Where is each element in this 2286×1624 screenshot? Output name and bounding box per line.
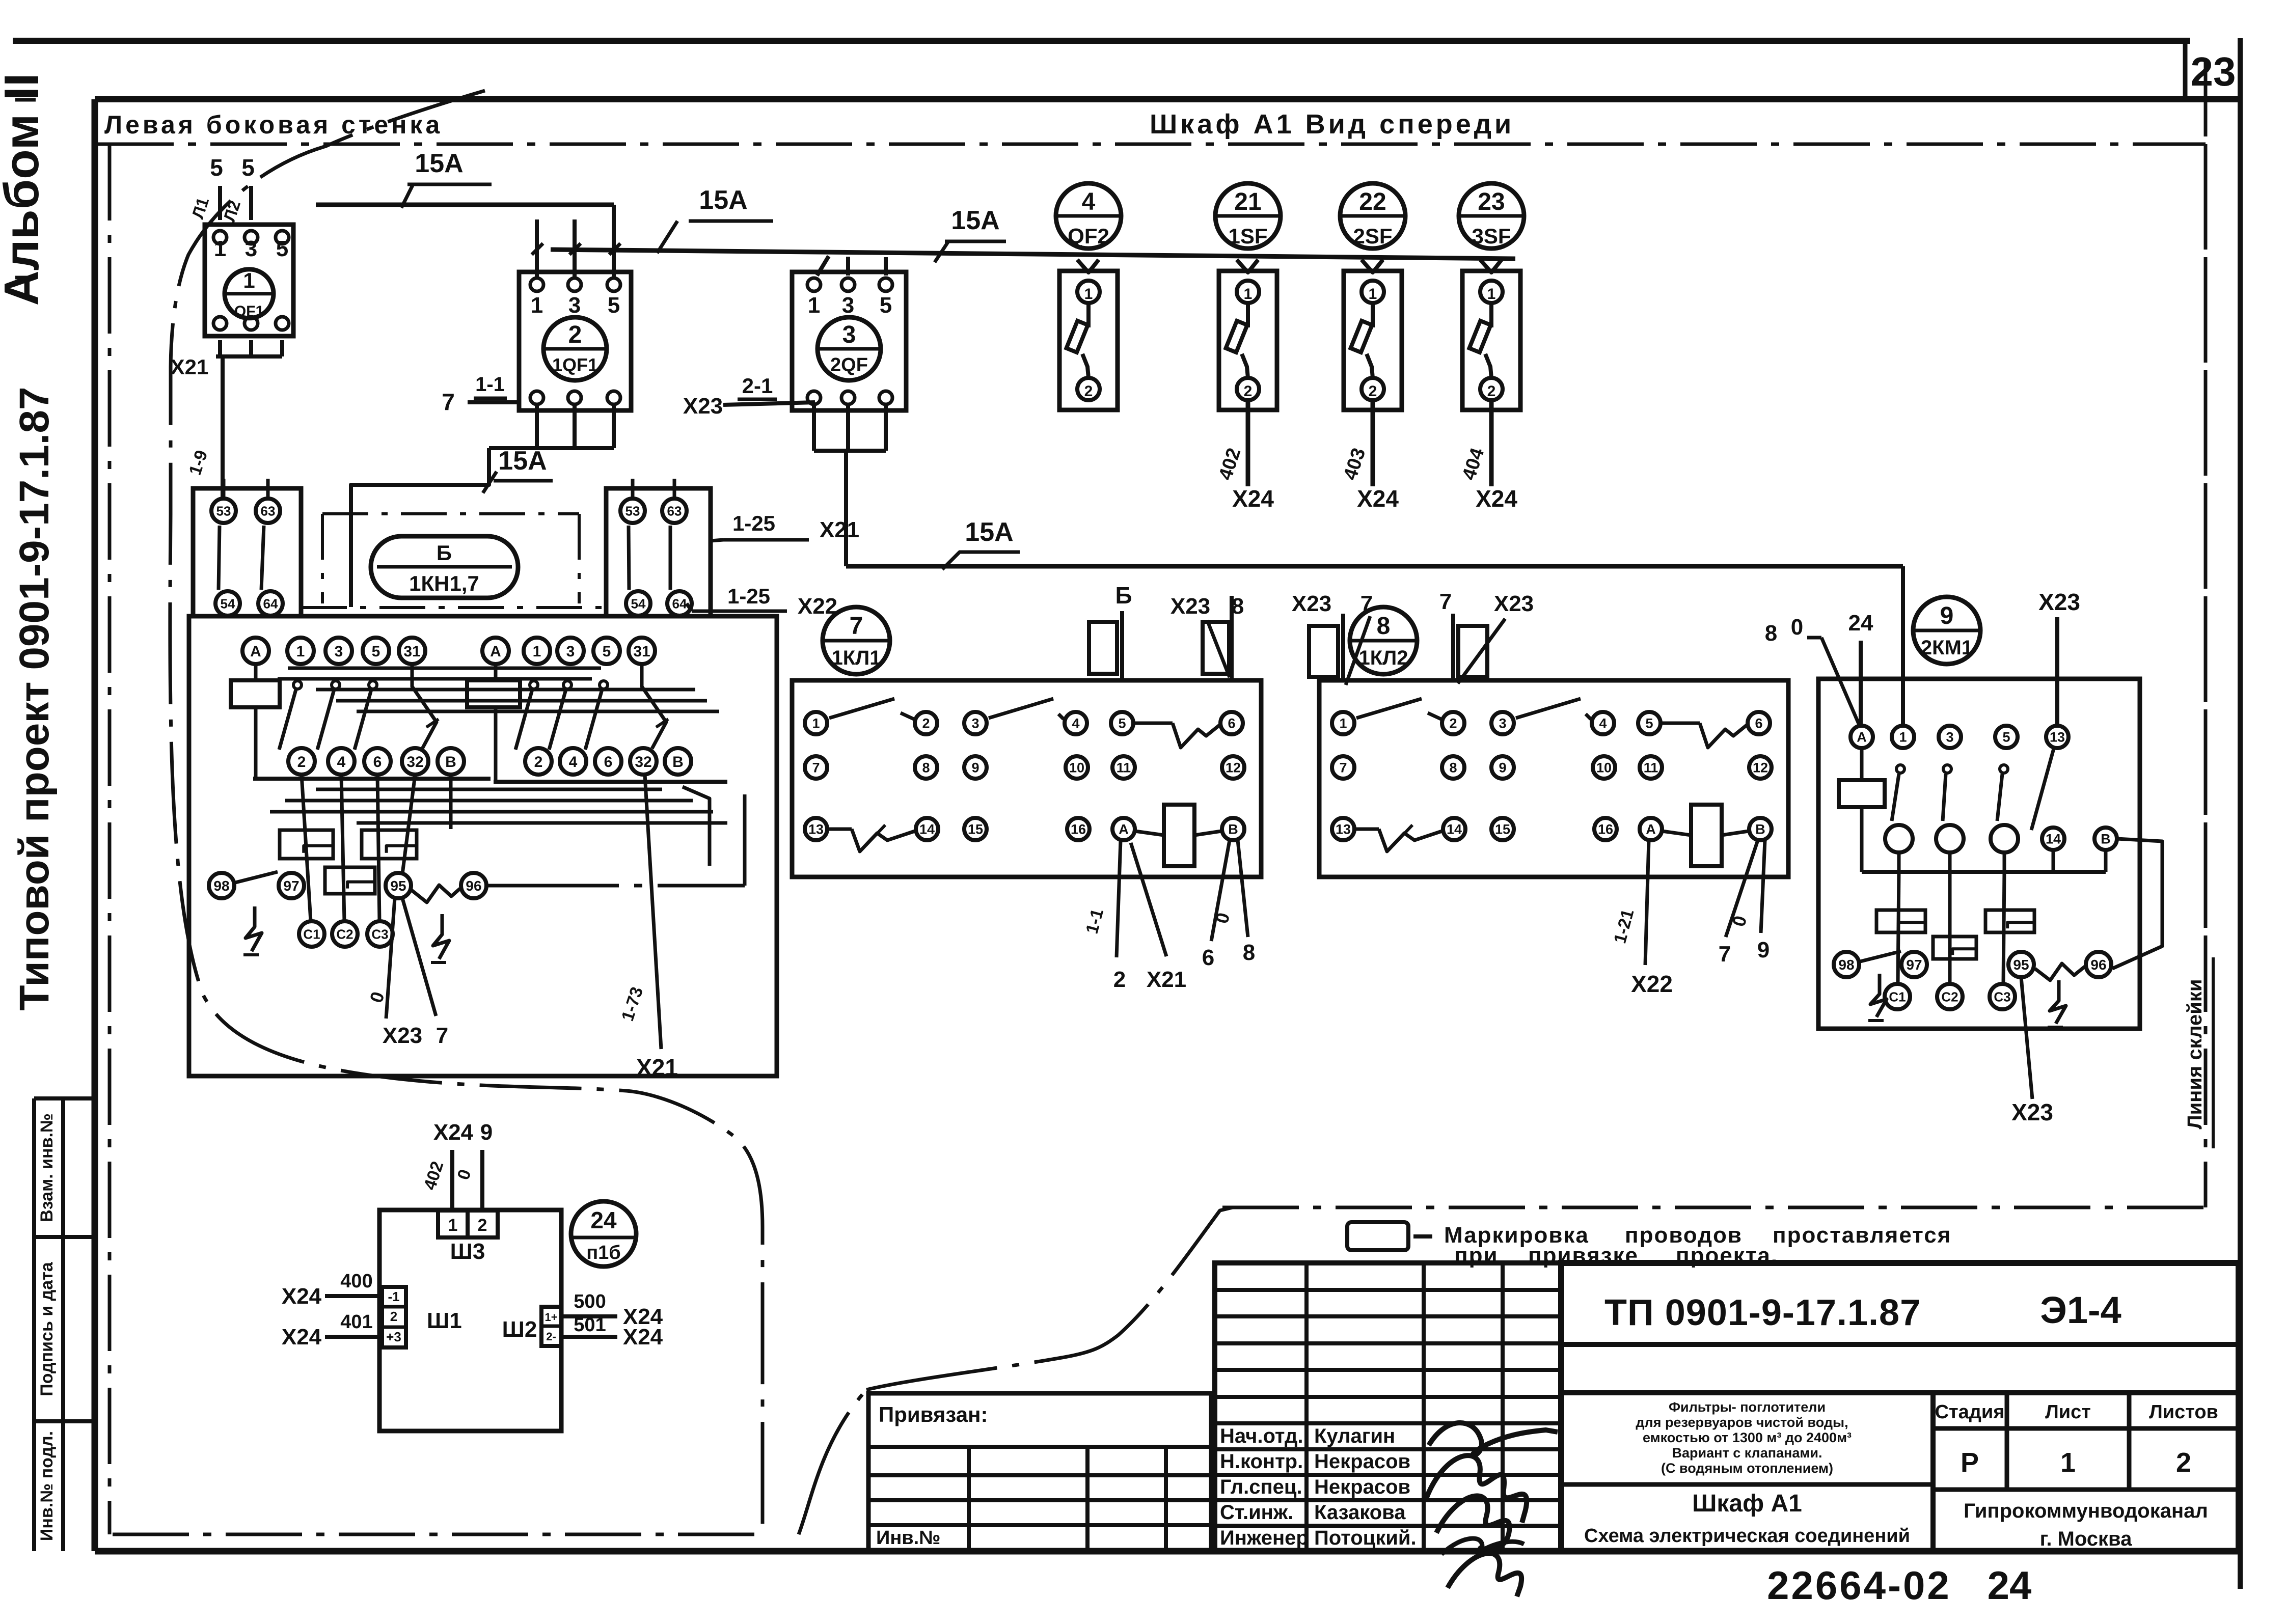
svg-text:15A: 15A xyxy=(699,185,747,215)
svg-text:X23: X23 xyxy=(1171,594,1210,619)
svg-text:Нач.отд.: Нач.отд. xyxy=(1220,1425,1303,1447)
svg-text:8: 8 xyxy=(1377,613,1391,640)
svg-text:5: 5 xyxy=(608,293,620,318)
svg-text:2: 2 xyxy=(1244,383,1253,400)
svg-text:A: A xyxy=(1857,730,1867,745)
svg-text:7: 7 xyxy=(1360,591,1373,616)
svg-text:15A: 15A xyxy=(965,517,1013,547)
svg-text:2: 2 xyxy=(478,1216,487,1235)
svg-text:31: 31 xyxy=(633,643,650,660)
svg-text:24: 24 xyxy=(1848,611,1873,636)
svg-text:14: 14 xyxy=(919,822,935,837)
svg-text:23: 23 xyxy=(2191,49,2236,94)
svg-text:2: 2 xyxy=(390,1309,397,1324)
svg-text:32: 32 xyxy=(406,754,423,770)
svg-text:11: 11 xyxy=(1644,760,1658,776)
svg-text:Ш3: Ш3 xyxy=(450,1239,485,1264)
svg-text:2-: 2- xyxy=(546,1330,556,1343)
svg-text:54: 54 xyxy=(631,596,646,611)
svg-text:7: 7 xyxy=(442,389,455,415)
svg-text:емкостью от 1300 м³ до 2400м³: емкостью от 1300 м³ до 2400м³ xyxy=(1643,1430,1852,1445)
svg-text:Ст.инж.: Ст.инж. xyxy=(1220,1501,1293,1524)
svg-text:53: 53 xyxy=(625,503,640,518)
svg-text:7: 7 xyxy=(1439,589,1452,614)
svg-text:15A: 15A xyxy=(415,149,463,178)
svg-text:(С водяным отоплением): (С водяным отоплением) xyxy=(1661,1461,1833,1476)
svg-text:Потоцкий.: Потоцкий. xyxy=(1314,1527,1417,1549)
svg-text:проставляется: проставляется xyxy=(1773,1223,1951,1248)
svg-text:500: 500 xyxy=(574,1291,606,1312)
svg-text:9: 9 xyxy=(1940,602,1954,629)
svg-text:B: B xyxy=(2101,832,2111,847)
svg-text:X23: X23 xyxy=(683,394,723,419)
svg-text:7: 7 xyxy=(812,760,820,776)
svg-text:QF1: QF1 xyxy=(234,303,264,320)
svg-text:B: B xyxy=(1755,822,1765,837)
svg-text:4: 4 xyxy=(1599,716,1607,731)
svg-text:5: 5 xyxy=(1118,716,1126,731)
svg-text:5: 5 xyxy=(880,293,892,318)
svg-text:Ш2: Ш2 xyxy=(502,1317,537,1342)
svg-text:24: 24 xyxy=(590,1207,617,1233)
svg-text:1: 1 xyxy=(1084,286,1093,302)
svg-text:12: 12 xyxy=(1226,760,1241,776)
svg-text:X23: X23 xyxy=(2011,1099,2053,1125)
svg-text:96: 96 xyxy=(2090,957,2106,973)
svg-text:X23: X23 xyxy=(1494,591,1534,616)
svg-text:Б: Б xyxy=(1115,582,1132,609)
svg-text:Лист: Лист xyxy=(2045,1401,2091,1423)
svg-text:7: 7 xyxy=(436,1023,448,1048)
svg-text:1: 1 xyxy=(448,1216,458,1235)
svg-text:6: 6 xyxy=(1755,716,1762,731)
svg-text:Инв.№ подл.: Инв.№ подл. xyxy=(37,1431,57,1541)
svg-text:3: 3 xyxy=(1499,716,1506,731)
svg-text:1: 1 xyxy=(531,293,543,318)
svg-text:8: 8 xyxy=(1449,760,1457,776)
svg-text:3: 3 xyxy=(568,293,581,318)
svg-text:Стадия: Стадия xyxy=(1935,1401,2005,1423)
svg-text:10: 10 xyxy=(1069,760,1084,776)
svg-text:63: 63 xyxy=(261,503,276,518)
svg-text:для резервуаров чистой воды: для резервуаров чистой воды, xyxy=(1636,1415,1848,1430)
svg-text:Листов: Листов xyxy=(2149,1401,2218,1423)
svg-text:1: 1 xyxy=(1899,730,1907,745)
svg-text:C2: C2 xyxy=(336,926,353,942)
svg-text:3: 3 xyxy=(245,236,257,261)
svg-text:1: 1 xyxy=(533,643,541,660)
svg-text:A: A xyxy=(1119,822,1129,837)
svg-text:Инженер: Инженер xyxy=(1220,1527,1309,1549)
svg-text:1-1: 1-1 xyxy=(475,373,505,396)
svg-text:B: B xyxy=(445,754,456,770)
svg-text:Шкаф А1: Шкаф А1 xyxy=(1692,1490,1802,1517)
svg-text:15A: 15A xyxy=(951,206,999,235)
svg-text:Инв.№: Инв.№ xyxy=(876,1527,941,1549)
svg-text:X24: X24 xyxy=(1476,485,1517,512)
svg-text:1SF: 1SF xyxy=(1228,224,1267,248)
svg-text:1: 1 xyxy=(214,236,226,261)
svg-text:2: 2 xyxy=(1084,383,1093,400)
svg-text:95: 95 xyxy=(390,878,406,894)
svg-text:1: 1 xyxy=(1369,286,1377,302)
svg-text:8: 8 xyxy=(1765,621,1777,646)
svg-text:2SF: 2SF xyxy=(1353,224,1392,248)
svg-text:C1: C1 xyxy=(303,926,320,942)
svg-text:X24: X24 xyxy=(1357,485,1399,512)
svg-text:97: 97 xyxy=(1906,957,1922,973)
svg-text:9: 9 xyxy=(480,1120,493,1145)
svg-text:7: 7 xyxy=(1719,942,1731,967)
svg-text:7: 7 xyxy=(850,613,863,640)
svg-text:2: 2 xyxy=(1113,967,1126,992)
svg-text:ТП 0901-9-17.1.87: ТП 0901-9-17.1.87 xyxy=(1604,1292,1921,1333)
svg-text:2: 2 xyxy=(2176,1447,2191,1478)
svg-text:97: 97 xyxy=(283,878,299,894)
svg-text:X24: X24 xyxy=(623,1325,663,1350)
svg-text:Типовой проект 0901-9-17.1.8: Типовой проект 0901-9-17.1.87 xyxy=(11,387,58,1010)
svg-text:22: 22 xyxy=(1359,188,1386,215)
svg-text:X21: X21 xyxy=(171,355,209,379)
svg-text:X21: X21 xyxy=(636,1054,678,1081)
svg-text:5: 5 xyxy=(210,154,223,181)
svg-text:2КМ1: 2КМ1 xyxy=(1921,637,1973,659)
svg-text:11: 11 xyxy=(1117,760,1131,776)
svg-text:9: 9 xyxy=(1499,760,1506,776)
svg-text:1-25: 1-25 xyxy=(727,584,770,608)
svg-text:4: 4 xyxy=(1072,716,1079,731)
svg-text:C1: C1 xyxy=(1889,989,1906,1004)
svg-text:5: 5 xyxy=(1645,716,1653,731)
svg-text:401: 401 xyxy=(340,1311,372,1333)
svg-text:1: 1 xyxy=(1487,286,1496,302)
svg-text:A: A xyxy=(490,643,501,660)
svg-text:6: 6 xyxy=(1202,945,1214,970)
svg-text:1: 1 xyxy=(808,293,820,318)
svg-text:2-1: 2-1 xyxy=(742,374,773,398)
svg-text:C3: C3 xyxy=(371,926,388,942)
svg-text:31: 31 xyxy=(403,643,420,660)
svg-text:X24: X24 xyxy=(1232,485,1274,512)
svg-text:24: 24 xyxy=(1988,1563,2032,1608)
svg-text:6: 6 xyxy=(604,754,613,770)
svg-text:Привязан:: Привязан: xyxy=(879,1402,988,1426)
svg-text:2: 2 xyxy=(1369,383,1377,400)
svg-text:22664-02: 22664-02 xyxy=(1767,1563,1951,1608)
svg-text:1: 1 xyxy=(1339,716,1347,731)
svg-text:5: 5 xyxy=(276,236,288,261)
svg-text:X22: X22 xyxy=(1631,971,1673,997)
svg-text:95: 95 xyxy=(2013,957,2029,973)
svg-text:53: 53 xyxy=(216,503,231,518)
svg-text:13: 13 xyxy=(808,822,824,837)
svg-text:16: 16 xyxy=(1598,822,1613,837)
svg-text:X24: X24 xyxy=(433,1120,474,1145)
svg-text:3: 3 xyxy=(566,643,575,660)
svg-text:1+: 1+ xyxy=(545,1311,557,1324)
svg-text:г. Москва: г. Москва xyxy=(2040,1528,2132,1550)
svg-text:0: 0 xyxy=(1791,615,1803,640)
svg-text:B: B xyxy=(1228,822,1238,837)
svg-text:X21: X21 xyxy=(820,517,859,542)
svg-text:3: 3 xyxy=(842,321,856,348)
svg-text:Ш1: Ш1 xyxy=(427,1308,462,1333)
svg-text:7: 7 xyxy=(1339,760,1347,776)
svg-text:3SF: 3SF xyxy=(1472,224,1511,248)
svg-text:2: 2 xyxy=(534,754,543,770)
svg-text:54: 54 xyxy=(221,596,235,611)
svg-text:2: 2 xyxy=(1449,716,1457,731)
svg-text:501: 501 xyxy=(574,1314,606,1336)
svg-text:4: 4 xyxy=(1082,188,1096,215)
svg-text:1-25: 1-25 xyxy=(732,511,775,535)
svg-text:Подпись и дата: Подпись и дата xyxy=(37,1261,57,1396)
svg-text:Гипрокоммунводоканал: Гипрокоммунводоканал xyxy=(1964,1500,2208,1522)
svg-text:-1: -1 xyxy=(388,1289,399,1304)
svg-text:13: 13 xyxy=(1336,822,1351,837)
svg-text:63: 63 xyxy=(667,503,682,518)
svg-text:B: B xyxy=(672,754,684,770)
svg-text:8: 8 xyxy=(1243,940,1255,965)
svg-text:Левая боковая стенка: Левая боковая стенка xyxy=(104,111,443,139)
svg-text:21: 21 xyxy=(1234,188,1261,215)
svg-text:Шкаф А1 Вид спереди: Шкаф А1 Вид спереди xyxy=(1150,109,1514,140)
svg-text:14: 14 xyxy=(2046,832,2061,847)
svg-text:64: 64 xyxy=(263,596,278,611)
svg-text:3: 3 xyxy=(842,293,854,318)
svg-text:23: 23 xyxy=(1478,188,1505,215)
svg-text:13: 13 xyxy=(2050,730,2065,745)
svg-text:X24: X24 xyxy=(282,1325,322,1350)
svg-text:3: 3 xyxy=(971,716,979,731)
svg-text:+3: +3 xyxy=(386,1329,401,1344)
svg-text:9: 9 xyxy=(971,760,979,776)
svg-text:6: 6 xyxy=(1228,716,1235,731)
svg-text:Р: Р xyxy=(1961,1447,1979,1478)
svg-text:Некрасов: Некрасов xyxy=(1314,1450,1410,1473)
svg-text:QF2: QF2 xyxy=(1068,224,1109,248)
svg-text:Казакова: Казакова xyxy=(1314,1501,1406,1524)
svg-text:1: 1 xyxy=(812,716,820,731)
svg-text:1: 1 xyxy=(243,268,255,292)
svg-text:1: 1 xyxy=(296,643,305,660)
svg-text:1КЛ1: 1КЛ1 xyxy=(832,647,881,669)
svg-text:C3: C3 xyxy=(1994,989,2010,1004)
svg-text:Схема электрическая соединен: Схема электрическая соединений xyxy=(1584,1525,1910,1547)
svg-text:2: 2 xyxy=(922,716,930,731)
svg-text:6: 6 xyxy=(373,754,382,770)
svg-text:4: 4 xyxy=(337,754,346,770)
svg-text:1QF1: 1QF1 xyxy=(552,354,598,375)
svg-text:C2: C2 xyxy=(1941,989,1958,1004)
svg-text:2: 2 xyxy=(1487,383,1496,400)
svg-text:Альбом II: Альбом II xyxy=(0,73,49,306)
svg-text:п1б: п1б xyxy=(586,1242,621,1263)
svg-text:10: 10 xyxy=(1596,760,1612,776)
svg-text:5: 5 xyxy=(372,643,380,660)
svg-text:5: 5 xyxy=(241,154,255,181)
svg-text:1: 1 xyxy=(1244,286,1253,302)
svg-text:X23: X23 xyxy=(383,1023,422,1048)
svg-text:2: 2 xyxy=(297,754,306,770)
svg-text:A: A xyxy=(1646,822,1656,837)
svg-text:1: 1 xyxy=(2060,1447,2076,1478)
svg-text:X24: X24 xyxy=(282,1284,322,1309)
svg-text:64: 64 xyxy=(672,596,687,611)
svg-text:A: A xyxy=(250,643,261,660)
svg-text:Вариант с клапанами.: Вариант с клапанами. xyxy=(1672,1445,1822,1461)
svg-text:400: 400 xyxy=(340,1271,372,1292)
svg-text:Гл.спец.: Гл.спец. xyxy=(1220,1476,1302,1498)
svg-text:Э1-4: Э1-4 xyxy=(2040,1289,2121,1331)
svg-text:15A: 15A xyxy=(498,446,547,476)
svg-text:5: 5 xyxy=(603,643,611,660)
svg-text:Фильтры- поглотители: Фильтры- поглотители xyxy=(1669,1399,1826,1415)
svg-text:Некрасов: Некрасов xyxy=(1314,1476,1410,1498)
svg-text:8: 8 xyxy=(922,760,930,776)
svg-text:Н.контр.: Н.контр. xyxy=(1220,1450,1303,1473)
svg-text:98: 98 xyxy=(1838,957,1854,973)
svg-text:4: 4 xyxy=(569,754,578,770)
svg-text:Кулагин: Кулагин xyxy=(1314,1425,1395,1447)
svg-text:2QF: 2QF xyxy=(830,354,868,376)
svg-text:96: 96 xyxy=(466,878,481,894)
svg-text:14: 14 xyxy=(1447,822,1462,837)
svg-text:X21: X21 xyxy=(1147,967,1186,992)
svg-text:3: 3 xyxy=(335,643,343,660)
svg-text:12: 12 xyxy=(1753,760,1768,776)
svg-text:Линия склейки: Линия склейки xyxy=(2184,979,2206,1130)
svg-text:X23: X23 xyxy=(1292,591,1331,616)
svg-text:16: 16 xyxy=(1071,822,1086,837)
svg-text:5: 5 xyxy=(2002,730,2010,745)
svg-text:1КН1,7: 1КН1,7 xyxy=(409,571,479,595)
svg-text:9: 9 xyxy=(1757,938,1770,962)
svg-text:15: 15 xyxy=(1495,822,1510,837)
svg-text:1КЛ2: 1КЛ2 xyxy=(1359,647,1408,669)
svg-text:32: 32 xyxy=(635,754,651,770)
svg-text:Взам. инв.№: Взам. инв.№ xyxy=(37,1113,57,1222)
svg-text:3: 3 xyxy=(1946,730,1953,745)
svg-text:98: 98 xyxy=(213,878,229,894)
svg-text:15: 15 xyxy=(968,822,983,837)
svg-text:Б: Б xyxy=(437,541,452,565)
svg-text:X23: X23 xyxy=(2038,589,2080,615)
svg-text:2: 2 xyxy=(568,321,582,348)
